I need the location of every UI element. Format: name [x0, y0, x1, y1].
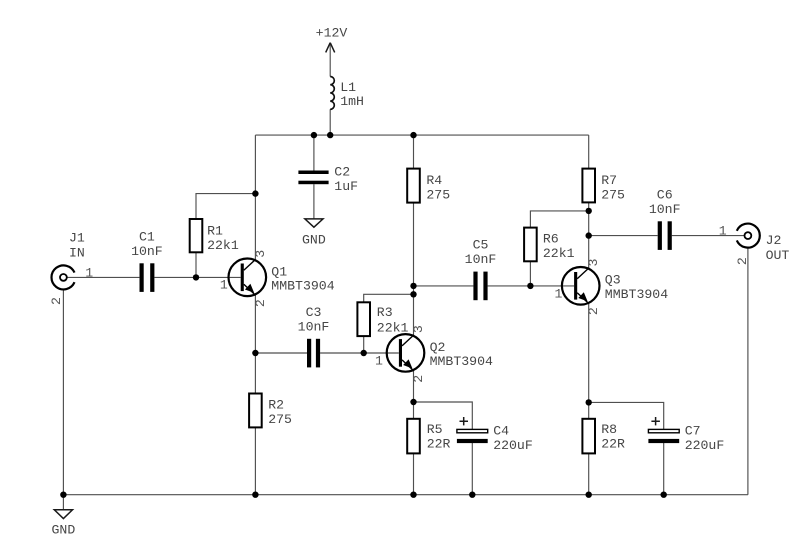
wire R7 top to bus [588, 135, 590, 169]
junction ground bus at C7 [661, 492, 667, 498]
svg-text:Q3: Q3 [605, 273, 621, 288]
transistor Q1 [229, 259, 267, 297]
svg-text:GND: GND [302, 232, 326, 247]
wire R2 bottom to ground bus [254, 428, 256, 495]
wire R3 bottom to Q2 base node [363, 336, 365, 353]
wire R4 bottom to Q2 collector [413, 203, 415, 336]
svg-text:22R: 22R [427, 437, 451, 452]
junction ground bus at J1 [60, 492, 66, 498]
junction Q2 collector to C5 [410, 283, 416, 289]
capacitor C5 [473, 272, 477, 301]
svg-text:Q1: Q1 [271, 264, 287, 279]
svg-text:10nF: 10nF [649, 202, 681, 217]
resistor R6 [524, 228, 537, 262]
svg-text:R5: R5 [427, 422, 443, 437]
junction C6 at Q3 collector [586, 232, 592, 238]
capacitor C1 [140, 263, 144, 292]
capacitor C4 polarized [457, 417, 488, 443]
resistor R8 [582, 419, 595, 454]
wire R6 top to R7 bottom node [530, 211, 588, 228]
wire R3 top to node [364, 294, 414, 302]
svg-text:2: 2 [49, 297, 64, 305]
junction ground bus at R2 [252, 492, 258, 498]
svg-text:OUT: OUT [766, 248, 790, 263]
svg-text:220uF: 220uF [685, 438, 725, 453]
svg-text:J2: J2 [766, 233, 782, 248]
wire C1 to Q1 base [154, 276, 240, 278]
inductor L1 [330, 77, 334, 110]
svg-text:J1: J1 [69, 230, 85, 245]
connector J1 [52, 265, 75, 289]
wire J1 pin2 down to ground bus [62, 290, 64, 495]
svg-text:220uF: 220uF [493, 438, 533, 453]
ground symbol bottom left [54, 510, 72, 519]
svg-text:C5: C5 [473, 238, 489, 253]
svg-text:22k1: 22k1 [207, 238, 239, 253]
svg-text:3: 3 [411, 325, 426, 333]
svg-text:MMBT3904: MMBT3904 [605, 287, 668, 302]
svg-text:R8: R8 [601, 422, 617, 437]
svg-text:GND: GND [52, 523, 76, 538]
wire C6 node to C6 [589, 235, 658, 237]
svg-text:10nF: 10nF [298, 320, 330, 335]
junction R1 at Q1 collector [252, 190, 258, 196]
wire C2 bottom to GND symbol [313, 184, 315, 218]
wire C4 bottom to ground bus [471, 443, 473, 495]
svg-text:C7: C7 [685, 423, 701, 438]
wire C3 to Q2 base [320, 352, 399, 354]
svg-text:2: 2 [586, 307, 601, 315]
capacitor C3 [307, 339, 311, 368]
capacitor C6 [658, 221, 662, 250]
svg-text:MMBT3904: MMBT3904 [271, 278, 334, 293]
wire J1 pin1 to C1 [67, 276, 139, 278]
svg-text:10nF: 10nF [131, 244, 163, 259]
junction Q3 emitter node [586, 399, 592, 405]
junction R1 at Q1 base [193, 274, 199, 280]
wire emitter node to C4 [414, 402, 473, 429]
capacitor C7 polarized [648, 417, 679, 443]
wire Q1 emitter down to R2 [254, 295, 256, 393]
svg-text:C2: C2 [334, 165, 350, 180]
junction ground bus at C4 [469, 492, 475, 498]
svg-text:1: 1 [85, 265, 93, 280]
wire J2 pin2 down to ground bus [747, 248, 749, 495]
svg-text:1: 1 [220, 278, 228, 293]
wire R8 bottom to ground bus [588, 453, 590, 494]
svg-text:1mH: 1mH [340, 94, 364, 109]
connector J2 [737, 224, 760, 248]
wire Q2 emitter down to R5 [413, 371, 415, 419]
svg-text:R2: R2 [268, 397, 284, 412]
svg-text:C3: C3 [306, 305, 322, 320]
svg-text:3: 3 [253, 250, 268, 258]
svg-text:R1: R1 [207, 223, 223, 238]
svg-text:22k1: 22k1 [543, 246, 575, 261]
junction R6 at Q3 base [527, 283, 533, 289]
power +12V arrow [326, 43, 335, 53]
wire R1 top to collector node [196, 194, 255, 219]
wire C6 to J2 pin1 [672, 235, 745, 237]
svg-text:2: 2 [735, 257, 750, 265]
wire R1 bottom to base node [195, 252, 197, 277]
junction Q1 emitter node [252, 350, 258, 356]
svg-text:10nF: 10nF [465, 252, 497, 267]
svg-text:2: 2 [411, 375, 426, 383]
capacitor C2 [298, 171, 328, 175]
wire R7 bottom to Q3 collector [588, 202, 590, 268]
junction R3 at Q2 base [361, 350, 367, 356]
junction R3 at Q2 collector [410, 291, 416, 297]
wire top bus [255, 134, 588, 136]
junction Q2 emitter node [410, 399, 416, 405]
junction R4 at top bus [410, 132, 416, 138]
wire Q1 collector to top bus [254, 135, 256, 260]
svg-text:1: 1 [555, 286, 563, 301]
wire GND stub bottom left [62, 495, 64, 510]
svg-text:C6: C6 [657, 188, 673, 203]
wire collector node to C5 [414, 285, 474, 287]
svg-text:+12V: +12V [316, 25, 348, 40]
wire R6 bottom to Q3 base [529, 261, 531, 286]
resistor R2 [249, 394, 262, 428]
svg-text:IN: IN [69, 246, 85, 261]
junction C2 at top bus [311, 132, 317, 138]
wire Q3 emitter down to R8 [588, 304, 590, 419]
svg-text:C4: C4 [493, 423, 509, 438]
wire R4 top to bus [413, 135, 415, 169]
svg-text:3: 3 [586, 258, 601, 266]
svg-text:1: 1 [719, 224, 727, 239]
svg-text:R4: R4 [426, 173, 442, 188]
wire C5 to Q3 base [488, 285, 574, 287]
resistor R1 [190, 219, 203, 252]
junction R6 at R7 bottom [586, 208, 592, 214]
resistor R4 [407, 169, 420, 203]
svg-text:22R: 22R [601, 437, 625, 452]
junction L1 at top bus [327, 132, 333, 138]
wire C2 top stub [313, 135, 315, 170]
wire C7 bottom to ground bus [663, 443, 665, 495]
resistor R7 [582, 169, 595, 203]
svg-text:R6: R6 [543, 232, 559, 247]
transistor Q3 [562, 267, 600, 305]
junction ground bus at R8 [586, 492, 592, 498]
transistor Q2 [387, 334, 425, 372]
resistor R5 [407, 419, 420, 454]
resistor R3 [357, 302, 370, 336]
junction ground bus at R5 [410, 492, 416, 498]
svg-text:275: 275 [601, 188, 625, 203]
wire R5 bottom to ground bus [413, 453, 415, 494]
svg-text:1: 1 [375, 353, 383, 368]
wire emitter node to C3 [255, 352, 307, 354]
svg-text:R7: R7 [601, 173, 617, 188]
svg-text:1uF: 1uF [334, 179, 358, 194]
svg-text:C1: C1 [139, 230, 155, 245]
wire bottom ground bus [63, 494, 748, 496]
svg-text:L1: L1 [340, 80, 356, 95]
svg-text:2: 2 [253, 299, 268, 307]
wire +12V arrow to L1 [329, 43, 331, 77]
svg-text:Q2: Q2 [430, 340, 446, 355]
svg-text:275: 275 [268, 412, 292, 427]
ground symbol under C2 [305, 219, 323, 227]
svg-text:MMBT3904: MMBT3904 [430, 354, 493, 369]
wire R8 node to C7 [589, 402, 664, 429]
svg-text:275: 275 [426, 188, 450, 203]
wire L1 bottom to bus [329, 109, 331, 135]
svg-text:R3: R3 [377, 305, 393, 320]
